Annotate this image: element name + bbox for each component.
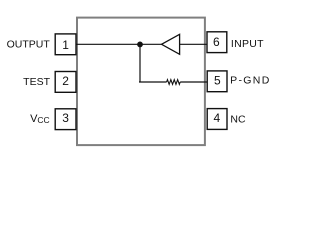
svg-text:3: 3	[62, 111, 69, 125]
pin 6 box	[207, 32, 227, 53]
svg-text:INPUT: INPUT	[231, 38, 264, 50]
svg-text:P-GND: P-GND	[230, 75, 271, 87]
pin 2 box	[55, 72, 76, 93]
wire to resistor left	[139, 81, 167, 83]
wire buffer base to pin 6	[180, 43, 207, 45]
IC body U1	[77, 18, 205, 146]
pin 3 box	[55, 109, 76, 130]
svg-text:TEST: TEST	[23, 76, 50, 88]
op-amp buffer (inverter triangle, input pin6 -> output pin1)	[162, 34, 180, 54]
pin 4 box	[207, 109, 227, 130]
wire resistor right to pin 5	[180, 81, 207, 83]
svg-text:5: 5	[214, 74, 221, 88]
pin 1 box	[55, 34, 76, 55]
svg-text:1: 1	[62, 38, 69, 52]
wire pin1 to buffer apex (node A)	[76, 43, 162, 45]
wire junction down from node A	[139, 44, 141, 82]
pin 5 box	[207, 71, 227, 92]
svg-text:2: 2	[62, 74, 69, 88]
svg-text:NC: NC	[230, 114, 246, 126]
svg-text:4: 4	[213, 111, 220, 125]
svg-text:6: 6	[213, 35, 220, 49]
junction node A	[137, 42, 143, 48]
svg-text:VCC: VCC	[30, 113, 50, 125]
svg-text:OUTPUT: OUTPUT	[7, 39, 51, 51]
resistor R1 (zigzag)	[167, 80, 181, 85]
